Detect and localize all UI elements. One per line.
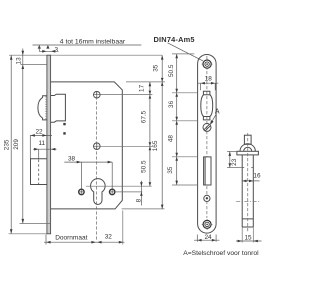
case top extension to column 2 — [126, 81, 165, 83]
leader from DIN74-Am5 to top screw — [168, 43, 204, 61]
extension line at y=64.6 (screw line stub left of plate) — [21, 64, 48, 66]
stelschroef dome outer arc — [240, 144, 255, 152]
line through top screw to column 1 — [100, 94, 152, 96]
extension stub x=39.3 — [38, 45, 40, 51]
case bottom extension to column 2 — [122, 208, 165, 210]
deadbolt (thrown) box — [31, 159, 47, 185]
shaft notch ticks at 23 dim — [242, 167, 253, 169]
plate bottom extension to left — [9, 233, 47, 235]
faceplate centerline dashed — [206, 56, 208, 218]
svg-text:15: 15 — [244, 235, 252, 242]
faceplate front view outline (rounded ends) — [198, 54, 217, 233]
32 right extension — [122, 211, 124, 245]
slot connector stub top — [172, 156, 198, 158]
top mounting screw (DIN74-Am5) — [202, 59, 213, 70]
svg-text:16: 16 — [253, 173, 261, 180]
svg-text:8: 8 — [136, 198, 143, 202]
screw hole bottom (side view) — [94, 143, 101, 150]
Doornmaat left extension — [45, 235, 47, 245]
svg-text:235: 235 — [4, 139, 11, 150]
column 1 dimension line (17 / 67.5 / 50.5 / 8) — [149, 82, 151, 186]
svg-text:18: 18 — [205, 75, 213, 82]
stelschroef flange — [237, 151, 259, 155]
horizontal dash-dot alignment line — [236, 201, 260, 203]
shaft dashed centerline — [247, 133, 249, 233]
column 3 dimension line (50.5 / 36 / 48 / 35) — [176, 54, 178, 185]
dimension 209 / 13 line — [22, 49, 24, 224]
svg-text:A: A — [215, 108, 220, 115]
svg-text:48: 48 — [168, 135, 175, 143]
svg-text:22: 22 — [35, 129, 43, 136]
shaft end band — [242, 219, 253, 227]
vertical dashed centerline through screw holes and cylinder — [96, 91, 98, 241]
slot connector stub bottom — [172, 184, 198, 186]
bottom mounting screw — [202, 219, 213, 230]
plate top stub for column 3 — [172, 53, 194, 55]
svg-text:50.5: 50.5 — [141, 160, 148, 173]
line through cylinder center to column 1 — [86, 185, 152, 187]
latch bolt head (left of plate) — [38, 96, 47, 120]
svg-text:Doornmaat: Doornmaat — [55, 234, 87, 241]
leader line under instelbaar label — [33, 44, 142, 46]
svg-text:50.5: 50.5 — [168, 64, 175, 77]
svg-text:4 tot 16mm instelbaar: 4 tot 16mm instelbaar — [60, 39, 126, 46]
svg-text:17: 17 — [139, 84, 146, 92]
roller latch (tonrol) top block — [203, 91, 210, 95]
small hole left of cylinder — [79, 189, 84, 194]
svg-text:13: 13 — [15, 57, 22, 65]
latch bolt body (right of plate) — [51, 94, 66, 122]
svg-text:38: 38 — [68, 155, 76, 162]
stelschroef shaft — [242, 155, 253, 227]
dimension 23 — [229, 152, 231, 168]
small hole below slot — [204, 195, 210, 201]
arrowhead up at x=47.9 on instelbaar line — [46, 45, 49, 49]
small square pin upper — [63, 123, 65, 125]
latch head bevel dotted line — [45, 97, 47, 120]
svg-text:DIN74-Am5: DIN74-Am5 — [154, 35, 195, 44]
svg-text:209: 209 — [13, 139, 20, 150]
dimension 15 — [236, 240, 262, 242]
stelschroef roller tip — [244, 135, 251, 144]
svg-text:36: 36 — [168, 100, 175, 108]
screw hole top (side view) — [94, 91, 101, 98]
svg-text:32: 32 — [105, 233, 113, 240]
deadbolt slot in faceplate — [204, 157, 211, 185]
line through bottom screw to column 1 — [100, 145, 152, 147]
arrowhead up at x=39.3 on instelbaar line — [38, 45, 41, 49]
svg-text:67.5: 67.5 — [141, 110, 148, 123]
euro profile cylinder hole — [91, 179, 106, 205]
faceplate top extension line — [9, 54, 162, 56]
small square pin lower — [63, 132, 65, 134]
deadbolt retracted face dashed — [38, 160, 40, 185]
dimension 235 line — [10, 55, 12, 234]
svg-text:35: 35 — [153, 64, 160, 72]
lock case outline — [51, 82, 123, 209]
roller latch barrel — [201, 95, 213, 117]
latch connector stub top — [172, 92, 198, 94]
stelschroef dome inner arc — [244, 147, 252, 151]
faceplate (side view, grey strip) — [47, 55, 51, 234]
column 2 dimension line (35 / 165) — [161, 55, 163, 209]
line through side holes to column 1 — [115, 191, 142, 193]
svg-text:35: 35 — [167, 166, 174, 174]
latch connector stub bottom — [172, 120, 198, 122]
adjusting screw A (slotted) — [203, 123, 211, 131]
dimension 16 — [242, 180, 259, 182]
roller latch bottom block — [203, 117, 210, 120]
svg-text:11: 11 — [38, 140, 45, 147]
svg-text:23: 23 — [231, 158, 238, 166]
svg-text:165: 165 — [152, 140, 159, 151]
extension line at y=223.5 (bottom screw line stub) — [20, 223, 51, 225]
svg-text:A=Stelschroef voor tonrol: A=Stelschroef voor tonrol — [183, 250, 259, 257]
small hole right of cylinder — [110, 189, 115, 194]
